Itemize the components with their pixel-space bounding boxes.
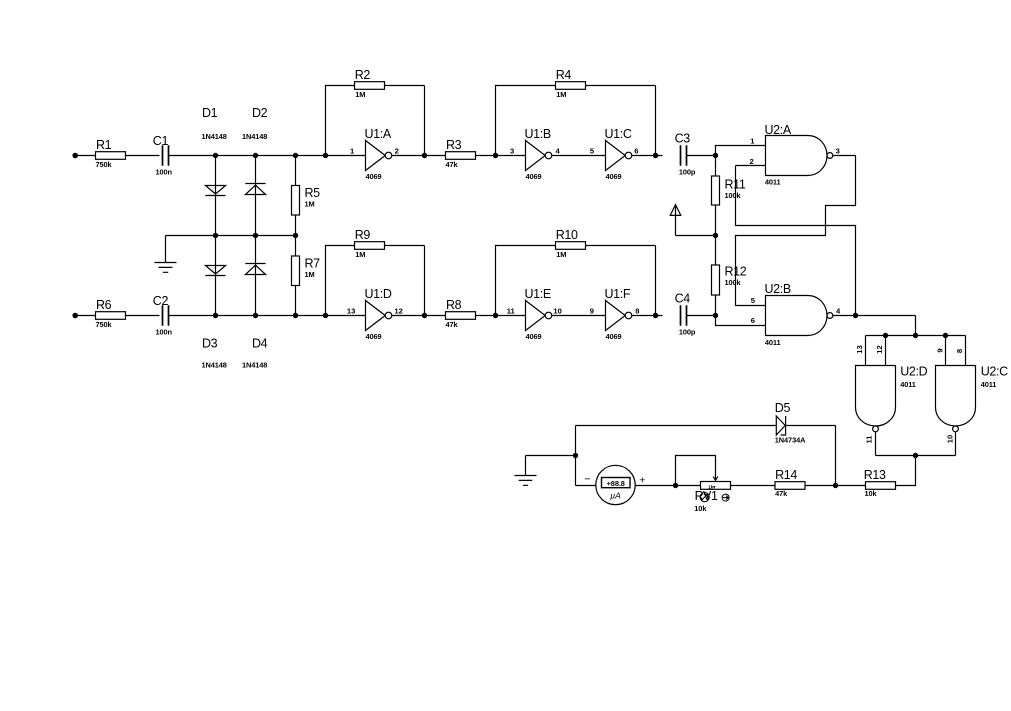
svg-text:U1:A: U1:A <box>365 127 392 141</box>
diode D2 (cathode up) <box>245 184 265 195</box>
wire U2:B output down to gate bus <box>915 316 917 336</box>
capacitor C3 <box>681 145 687 165</box>
wire R11 top stub <box>715 156 717 177</box>
junction R3-U1:B / R4 feedback node <box>493 153 498 158</box>
svg-text:2: 2 <box>395 147 399 156</box>
svg-text:D1: D1 <box>202 106 218 120</box>
junction input node bottom-left <box>72 313 78 319</box>
junction top rail / R2 feedback <box>323 153 328 158</box>
wire D5 branch vertical <box>835 426 837 486</box>
wire C4 node to U2:B pin 6 <box>716 316 766 326</box>
junction bottom rail / R9 feedback <box>323 313 328 318</box>
svg-text:U1:B: U1:B <box>525 127 551 141</box>
wire input to R6 <box>75 315 95 317</box>
wire middle rail <box>166 235 296 237</box>
svg-text:10: 10 <box>946 435 955 443</box>
svg-text:4069: 4069 <box>526 332 542 341</box>
wire R11 bottom stub <box>715 205 717 236</box>
svg-text:6: 6 <box>634 147 638 156</box>
junction R8-U1:E / R10 feedback node <box>493 313 498 318</box>
diode D1 branch wire <box>215 156 217 236</box>
wire C4 to node C <box>687 315 716 317</box>
resistor R2 <box>355 82 385 90</box>
junction U2:B output node <box>853 313 858 318</box>
wire R1 to C1 <box>126 155 160 157</box>
wire gate input bus <box>866 335 966 337</box>
wire meter to pot <box>635 485 700 487</box>
wire C2 to U1:D input (bottom rail) <box>169 315 366 317</box>
svg-text:R10: R10 <box>556 228 578 242</box>
wire input to R1 <box>75 155 95 157</box>
svg-text:U2:D: U2:D <box>900 364 927 378</box>
svg-text:U1:E: U1:E <box>525 287 551 301</box>
junction bottom rail / R7 <box>293 313 298 318</box>
svg-text:11: 11 <box>865 435 874 444</box>
diode D4 branch wire <box>255 236 257 316</box>
junction top rail / D2 <box>253 153 258 158</box>
svg-text:12: 12 <box>875 345 884 353</box>
wire ground branch vertical <box>575 426 577 486</box>
resistor R6 <box>96 312 126 320</box>
junction top rail / D1 <box>213 153 218 158</box>
junction U1:D output node <box>422 313 427 318</box>
wire R3 to U1:B <box>476 155 526 157</box>
wire C1 to U1:A input (top rail) <box>169 155 366 157</box>
resistor R7 <box>292 256 300 286</box>
junction mid rail / R5-R7 <box>293 233 298 238</box>
ground (meter section) <box>515 456 537 486</box>
resistor R12 <box>712 265 720 295</box>
svg-text:12: 12 <box>394 307 402 316</box>
wire U2:A output <box>833 155 856 157</box>
svg-text:47k: 47k <box>446 160 459 169</box>
junction node C (C4/R12/U2:B.6) <box>713 313 718 318</box>
RV1 wiper loop wire <box>676 456 716 486</box>
NAND gate U2:A (4011) <box>766 136 828 176</box>
wire U1:C output to C3 <box>632 155 663 157</box>
wire U2:B output <box>833 315 916 317</box>
junction U1:A output node <box>422 153 427 158</box>
svg-text:1M: 1M <box>355 90 365 99</box>
wire latch cross: U2:B.4 to U2:A.2 <box>736 166 856 316</box>
svg-text:9: 9 <box>935 348 944 352</box>
wire U2:C output stub <box>955 432 957 456</box>
svg-text:1N4148: 1N4148 <box>202 360 227 369</box>
svg-text:8: 8 <box>955 349 964 353</box>
junction bottom rail / D3 <box>213 313 218 318</box>
svg-text:1N4148: 1N4148 <box>242 360 267 369</box>
svg-text:1N4148: 1N4148 <box>242 132 267 141</box>
wire R13 to R14 node <box>836 485 866 487</box>
svg-text:C4: C4 <box>675 292 691 306</box>
svg-text:U2:A: U2:A <box>765 123 792 137</box>
wire U2:D pin 12 stub <box>885 336 887 366</box>
wire node A jog to U2:A pin 1 <box>716 146 766 156</box>
resistor R5 <box>292 186 300 216</box>
potentiometer RV1 <box>701 482 731 490</box>
svg-text:C3: C3 <box>675 132 691 146</box>
resistor R9 <box>355 242 385 250</box>
svg-text:D2: D2 <box>252 106 268 120</box>
svg-text:13: 13 <box>347 307 355 316</box>
wire ground wire <box>526 455 576 457</box>
svg-text:R8: R8 <box>446 298 462 312</box>
resistor R3 <box>446 152 476 160</box>
diode D3 branch wire <box>215 236 217 316</box>
wire D5 cathode wire <box>786 425 836 427</box>
svg-text:750k: 750k <box>96 160 113 169</box>
svg-text:1M: 1M <box>305 270 315 279</box>
svg-text:4069: 4069 <box>606 332 622 341</box>
svg-text:4011: 4011 <box>765 338 781 347</box>
wire R8 to U1:E <box>476 315 526 317</box>
wire R12 bottom stub <box>715 295 717 316</box>
RV1 decrement button <box>722 494 729 501</box>
svg-text:2: 2 <box>750 157 754 166</box>
resistor R8 <box>446 312 476 320</box>
svg-text:4069: 4069 <box>366 332 382 341</box>
svg-text:R6: R6 <box>96 298 112 312</box>
svg-text:4069: 4069 <box>526 172 542 181</box>
RV1 increment button <box>700 493 709 502</box>
wire probe to node B <box>676 235 716 237</box>
svg-text:4011: 4011 <box>981 380 997 389</box>
capacitor C1 <box>163 145 169 165</box>
wire R12 top stub <box>715 236 717 266</box>
svg-text:1M: 1M <box>556 90 566 99</box>
wire R9 feedback right <box>385 246 425 316</box>
svg-text:U2:B: U2:B <box>765 282 791 296</box>
junction meter/pot node <box>673 483 678 488</box>
inverter U1:F (4069) <box>606 301 626 331</box>
wire R9 feedback left/top <box>326 246 355 316</box>
svg-text:1N4148: 1N4148 <box>202 132 227 141</box>
NAND gate U2:B (4011) <box>766 296 827 336</box>
svg-text:47k: 47k <box>446 320 459 329</box>
svg-text:10k: 10k <box>694 504 707 513</box>
wire U1:B output to U1:C <box>552 155 606 157</box>
wire R5 top stub <box>295 156 297 186</box>
svg-text:U1:D: U1:D <box>365 287 392 301</box>
svg-text:750k: 750k <box>96 320 113 329</box>
wire U2:C pin 9 stub <box>945 336 947 366</box>
svg-text:10k: 10k <box>865 489 878 498</box>
wire U2:D pin 13 stub <box>865 336 867 366</box>
junction U1:F output / R10 node <box>653 313 658 318</box>
svg-text:47k: 47k <box>775 489 788 498</box>
svg-text:R13: R13 <box>864 468 886 482</box>
svg-text:11: 11 <box>507 307 516 316</box>
junction ground tee node <box>573 453 578 458</box>
resistor R13 <box>866 482 896 490</box>
wire D5 anode wire <box>576 425 777 427</box>
resistor R1 <box>96 152 126 160</box>
svg-text:D5: D5 <box>775 401 791 415</box>
svg-text:R4: R4 <box>556 68 572 82</box>
RV1 wiper arrowhead <box>713 477 718 481</box>
svg-text:100n: 100n <box>156 327 173 336</box>
wire U2:D output stub <box>875 432 877 456</box>
svg-text:+: + <box>639 474 645 486</box>
junction input node top-left <box>72 153 78 159</box>
svg-text:C1: C1 <box>153 134 169 148</box>
wire outputs join <box>876 455 956 457</box>
svg-text:1M: 1M <box>556 250 566 259</box>
svg-text:R14: R14 <box>775 468 797 482</box>
wire meter left wire <box>576 485 596 487</box>
wire latch cross: U2:A.3 to U2:B.5 <box>736 156 856 306</box>
wire U2:C pin 8 stub <box>965 336 967 366</box>
svg-text:R5: R5 <box>305 186 321 200</box>
wire R2 feedback left/top <box>326 86 355 156</box>
svg-text:3: 3 <box>510 147 514 156</box>
svg-text:+88.8: +88.8 <box>607 479 625 488</box>
wire R4 feedback right <box>586 86 656 156</box>
inverter U1:D (4069) <box>366 301 386 331</box>
probe arrow marker <box>670 205 681 236</box>
junction bus / pin 12 <box>883 333 888 338</box>
diode D3 (cathode down) <box>205 266 225 276</box>
junction bus / pin 9 <box>943 333 948 338</box>
wire U1:D output to R8 <box>392 315 446 317</box>
junction top rail / R5 <box>293 153 298 158</box>
svg-text:R1: R1 <box>96 138 112 152</box>
svg-text:100p: 100p <box>679 167 696 176</box>
junction mid rail / D2 <box>253 233 258 238</box>
junction U1:C output / R4 node <box>653 153 658 158</box>
svg-text:R3: R3 <box>446 138 462 152</box>
wire U1:A output to R3 <box>392 155 446 157</box>
junction node B (R11/R12 junction) <box>713 233 718 238</box>
svg-text:C2: C2 <box>153 294 169 308</box>
junction bus / feed <box>913 333 918 338</box>
wire R7 top stub <box>295 236 297 257</box>
junction outputs join node <box>913 453 918 458</box>
svg-text:100n: 100n <box>156 167 173 176</box>
svg-text:4069: 4069 <box>606 172 622 181</box>
svg-text:100k: 100k <box>725 191 742 200</box>
inverter U1:B (4069) <box>526 141 546 171</box>
svg-text:U1:F: U1:F <box>605 287 631 301</box>
inverter U1:C (4069) <box>606 141 626 171</box>
wire R5 bottom stub <box>295 215 297 236</box>
junction mid rail / D1 <box>213 233 218 238</box>
wire R14 to node <box>805 485 836 487</box>
resistor R14 <box>775 482 805 490</box>
svg-text:D3: D3 <box>202 337 218 351</box>
svg-text:U1:C: U1:C <box>605 127 632 141</box>
svg-text:µA: µA <box>610 490 621 500</box>
junction bottom rail / D4 <box>253 313 258 318</box>
wire pot to R14 <box>731 485 776 487</box>
wire R10 feedback left/top <box>496 246 556 316</box>
svg-text:1N4734A: 1N4734A <box>775 436 806 445</box>
capacitor C4 <box>681 305 687 325</box>
capacitor C2 <box>163 305 169 325</box>
svg-text:100p: 100p <box>679 327 696 336</box>
NAND gate U2:D (4011) <box>856 366 896 427</box>
svg-text:13: 13 <box>855 345 864 353</box>
diode D1 (cathode down) <box>205 186 225 196</box>
svg-text:1M: 1M <box>305 200 315 209</box>
wire R4 feedback left/top <box>496 86 556 156</box>
wire join down to R13 <box>896 456 916 486</box>
svg-text:4069: 4069 <box>366 172 382 181</box>
inverter U1:E (4069) <box>526 301 546 331</box>
ammeter (uA meter) <box>596 465 635 504</box>
svg-text:D4: D4 <box>252 337 268 351</box>
svg-text:R7: R7 <box>305 257 321 271</box>
wire U1:E output to U1:F <box>552 315 606 317</box>
svg-text:R2: R2 <box>355 68 371 82</box>
svg-text:−: − <box>584 473 590 485</box>
zener diode D5 <box>776 416 785 435</box>
wire R10 feedback right <box>586 246 656 316</box>
svg-text:U2:C: U2:C <box>981 364 1008 378</box>
svg-text:8: 8 <box>635 307 639 316</box>
wire U1:F output to C4 <box>632 315 663 317</box>
diode D4 (cathode up) <box>245 264 265 275</box>
wire C3 to node A <box>687 155 716 157</box>
svg-text:9: 9 <box>590 307 594 316</box>
svg-text:10: 10 <box>553 307 561 316</box>
diode D2 branch wire <box>255 156 257 236</box>
wire R6 to C2 <box>126 315 160 317</box>
svg-text:R9: R9 <box>355 228 371 242</box>
junction node A (C3/R11/U2:A.1) <box>713 153 718 158</box>
junction R13/R14/D5 node <box>833 483 838 488</box>
wire U2:A pin 2 stub <box>736 165 766 167</box>
wire R2 feedback right <box>385 86 425 156</box>
resistor R4 <box>556 82 586 90</box>
svg-text:4011: 4011 <box>765 177 781 186</box>
wire R7 bottom stub <box>295 286 297 316</box>
svg-text:100k: 100k <box>725 278 742 287</box>
svg-text:3: 3 <box>836 146 840 155</box>
resistor R10 <box>556 242 586 250</box>
svg-text:6: 6 <box>751 316 755 325</box>
svg-text:1M: 1M <box>355 250 365 259</box>
resistor R11 <box>712 176 720 205</box>
svg-text:4011: 4011 <box>900 380 916 389</box>
inverter U1:A (4069) <box>366 141 386 171</box>
ground (top section) <box>155 236 177 273</box>
NAND gate U2:C (4011) <box>936 366 976 427</box>
